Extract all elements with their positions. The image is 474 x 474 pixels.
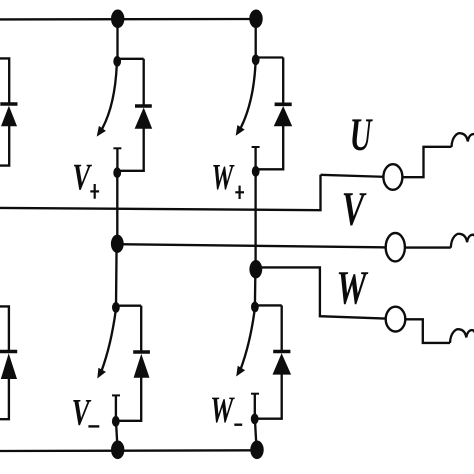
node: switch S-V+ upper terminal dot — [113, 56, 121, 67]
switch S-V- blade — [102, 312, 116, 372]
wire: S-V- top to diode branch — [116, 305, 141, 307]
label W- — [212, 398, 235, 423]
wire: W phase tap to sensor — [256, 267, 386, 318]
wire: W phase vertical (upper dot to mid junction) — [254, 172, 256, 270]
switch S-V+ lower stub — [116, 148, 118, 172]
label W+ plus sign — [235, 191, 244, 193]
diode D5 cathode bar — [273, 350, 290, 354]
node: switch S-W- upper terminal dot — [251, 302, 259, 313]
wire: U line to sensor — [321, 175, 384, 177]
wire: W- to bottom bus — [255, 419, 257, 450]
wire: V lower leg (mid junction to S-V- top) — [115, 244, 118, 308]
switch S-W- lower stub — [254, 394, 256, 419]
switch S-V+ arrowhead — [97, 126, 106, 137]
diode D4 triangle — [134, 354, 150, 378]
node: switch S-V- lower terminal dot — [112, 416, 120, 427]
junction dot: W phase mid — [249, 260, 262, 278]
wire: V upper leg from top bus — [116, 19, 118, 61]
switch S-W+ lower contact tick — [252, 146, 260, 148]
label W — [339, 272, 369, 304]
wire: S-V+ top to diode branch — [118, 58, 144, 60]
diode D2 triangle — [135, 108, 153, 129]
inductor: V phase winding — [451, 234, 474, 248]
wire: diode D2 branch bottom — [117, 127, 143, 171]
wire: U sensor to riser — [402, 147, 451, 177]
wire: diode D5 branch top — [281, 305, 283, 351]
wire: S-W- top to diode branch — [255, 304, 282, 306]
diode D1 triangle — [1, 106, 17, 126]
label W- minus sign — [234, 424, 242, 426]
node: switch S-W+ upper terminal dot — [252, 54, 260, 65]
junction dot: bottom bus / V-phase lower leg — [111, 441, 124, 460]
diode D6 triangle — [1, 353, 17, 379]
node: switch S-V- upper terminal dot — [112, 302, 120, 313]
inductor: U phase winding — [452, 133, 474, 147]
current sensor V (oval) — [386, 233, 405, 261]
label V+ plus sign — [90, 190, 99, 192]
wire: diode D3 branch bottom — [256, 125, 283, 170]
diode D1 branch wires (U+ leg, cut at left edge) — [0, 58, 9, 104]
wire: V phase vertical (upper dot to mid junction) — [116, 173, 118, 245]
switch S-W- arrowhead — [236, 366, 245, 377]
diode D4 cathode bar — [133, 350, 150, 354]
switch S-W+ lower stub — [254, 147, 256, 171]
label V- — [73, 400, 91, 425]
switch S-W+ blade — [241, 64, 256, 128]
switch S-W+ arrowhead — [236, 125, 245, 136]
switch S-V- arrowhead — [97, 368, 106, 379]
inductor: W phase winding — [450, 329, 474, 343]
switch S-W- lower contact tick — [251, 393, 259, 395]
wire: diode D3 branch top — [282, 58, 284, 105]
node: switch S-W+ lower terminal dot — [252, 166, 260, 177]
diode D3 cathode bar — [275, 103, 292, 107]
wire: top DC bus (+) — [0, 18, 257, 21]
wire: W upper leg from top bus — [255, 19, 257, 60]
wire: V sensor to coil — [405, 246, 451, 248]
label W+ — [213, 165, 234, 190]
switch S-V+ lower contact tick — [113, 147, 121, 149]
diode D2 cathode bar — [135, 104, 152, 108]
diode D3 triangle — [274, 106, 293, 126]
wire: U phase mid rail — [0, 175, 321, 210]
switch S-V- lower contact tick — [112, 394, 120, 396]
wire: diode D4 branch top — [140, 306, 142, 352]
switch S-V- lower stub — [115, 395, 117, 421]
wire: W sensor to coil — [405, 319, 450, 343]
junction dot: V phase mid — [111, 235, 124, 253]
wire: diode D4 branch bottom — [116, 376, 141, 421]
junction dot: top bus end / W-phase upper leg — [249, 9, 262, 28]
wire: D6 branch bottom (U- leg) — [0, 377, 9, 419]
wire: V phase rail to sensor — [117, 244, 386, 247]
switch S-V+ blade — [102, 65, 117, 130]
wire: W lower leg (mid junction to S-W- top) — [254, 269, 257, 307]
label V- minus sign — [88, 425, 99, 427]
diode D6 cathode bar — [0, 350, 17, 354]
junction dot: top bus / V-phase upper leg — [111, 9, 124, 28]
current sensor U (oval) — [383, 164, 402, 190]
wire: bottom DC bus (-) — [0, 449, 258, 452]
diode D1 cathode bar — [0, 102, 17, 106]
node: switch S-W- lower terminal dot — [251, 414, 259, 425]
node: switch S-V+ lower terminal dot — [113, 167, 121, 178]
label V+ — [74, 165, 92, 190]
junction dot: bottom bus end / W-phase lower leg — [250, 441, 263, 460]
current sensor W (oval) — [386, 307, 406, 332]
switch S-W- blade — [241, 311, 255, 370]
label V — [344, 193, 367, 225]
label U — [352, 119, 373, 150]
diode D6 branch wires (U- leg, cut at left edge) — [0, 306, 9, 351]
wire: D1 branch bottom (U+ leg) — [0, 125, 9, 166]
diode D5 triangle — [273, 353, 292, 374]
wire: S-W+ top to diode branch — [256, 56, 284, 58]
wire: diode D2 branch top — [143, 59, 145, 106]
wire: diode D5 branch bottom — [255, 373, 282, 419]
wire: V- to bottom bus — [116, 422, 118, 451]
